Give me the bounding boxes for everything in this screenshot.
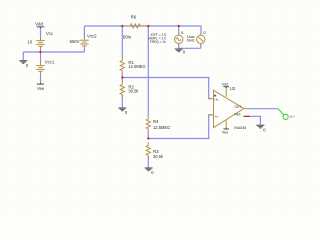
resistor R3 xyxy=(146,142,150,158)
power symbol Vee left xyxy=(37,83,44,84)
svg-text:-In: -In xyxy=(214,115,218,119)
voltage probe marker xyxy=(278,109,288,120)
resistor R4 xyxy=(146,116,150,131)
wire R2 bottom stub xyxy=(121,95,123,107)
wire R1 bottom to node B xyxy=(121,73,123,77)
wire node A to Vcc1 xyxy=(40,52,42,61)
svg-text:R4: R4 xyxy=(153,119,159,124)
voltage source Vcc2 xyxy=(80,37,89,49)
current source I1 xyxy=(175,33,183,45)
power symbol Vdd left xyxy=(37,27,44,28)
wire I1 top stub xyxy=(178,26,180,34)
power symbol Vdd op-amp xyxy=(223,87,229,88)
svg-text:OUT: OUT xyxy=(235,105,242,109)
node B junction xyxy=(121,76,123,78)
svg-text:I2: I2 xyxy=(203,31,206,35)
svg-text:12.5MEG: 12.5MEG xyxy=(128,64,145,69)
wire I1 bottom stub xyxy=(178,44,180,48)
wire output xyxy=(249,108,279,110)
wire I2 top stub xyxy=(200,26,202,34)
wire column R4 top xyxy=(147,26,149,116)
wire Vcc1 to Vee xyxy=(40,75,42,84)
svg-text:Vdd: Vdd xyxy=(35,21,43,26)
svg-text:Vee: Vee xyxy=(37,86,45,91)
wire Vcc2 bottom vertical xyxy=(83,49,85,52)
svg-text:Vcc: Vcc xyxy=(46,31,54,36)
svg-text:INA545: INA545 xyxy=(234,126,246,130)
svg-text:10: 10 xyxy=(27,39,32,44)
voltage source Vcc1 xyxy=(36,61,45,75)
svg-text:Vee: Vee xyxy=(222,131,228,135)
svg-text:30.5k: 30.5k xyxy=(153,154,164,159)
junction top R4 column xyxy=(147,25,149,27)
current source I2 xyxy=(197,33,205,45)
svg-text:660V: 660V xyxy=(70,39,80,44)
wire REF to ground xyxy=(250,116,261,125)
svg-text:12.5MEG: 12.5MEG xyxy=(153,125,170,130)
wire node B to R2 xyxy=(121,78,123,82)
pin + xyxy=(214,95,216,97)
svg-text:Vdd: Vdd xyxy=(222,82,228,86)
REF pin stub xyxy=(244,115,250,117)
ground 0 under R3 xyxy=(145,168,153,171)
wire source bottom rail xyxy=(179,47,201,49)
svg-text:Vcc1: Vcc1 xyxy=(45,59,55,64)
ground 0 left xyxy=(19,61,27,64)
svg-text:30.5k: 30.5k xyxy=(128,88,139,93)
node C junction xyxy=(147,137,149,139)
value 1Aac 0Adc xyxy=(187,35,195,42)
wire ground stub left xyxy=(22,52,24,60)
wire Vcc to node A xyxy=(40,50,42,52)
svg-text:Vcc2: Vcc2 xyxy=(87,33,97,38)
junction top I1 column xyxy=(178,25,180,27)
ground 0 under I1 xyxy=(175,49,183,52)
wire Vdd to Vcc xyxy=(40,28,42,37)
svg-text:0Adc: 0Adc xyxy=(187,39,195,43)
svg-text:I1: I1 xyxy=(181,31,184,35)
ground 0 under R2 xyxy=(118,108,126,111)
wire R3 bottom stub xyxy=(147,156,149,168)
wire top rail xyxy=(84,25,201,27)
junction top R1 column xyxy=(121,25,123,27)
wire I2 bottom stub xyxy=(200,44,202,48)
svg-text:FREQ = 1k: FREQ = 1k xyxy=(150,40,166,44)
resistor R1 xyxy=(120,57,124,73)
op-amp U2 xyxy=(209,88,250,129)
svg-text:REF: REF xyxy=(235,112,241,116)
wire R4 bottom to node C xyxy=(147,130,149,139)
wire inverting input xyxy=(148,115,211,139)
voltage source Vcc xyxy=(36,36,45,50)
wire Vcc2 top vertical xyxy=(83,26,85,38)
resistor R2 xyxy=(120,81,124,98)
svg-text:+In: +In xyxy=(214,98,219,102)
node A junction xyxy=(39,51,41,53)
power symbol Vee op-amp xyxy=(223,128,229,129)
wire column R1 top xyxy=(121,26,123,58)
value IOFF IAMPL FREQ xyxy=(148,33,166,44)
wire left rail xyxy=(23,51,84,53)
svg-text:U2: U2 xyxy=(230,86,236,91)
svg-text:50m: 50m xyxy=(123,34,132,39)
ground 0 REF xyxy=(256,125,264,128)
resistor R6 xyxy=(126,24,148,28)
svg-text:R6: R6 xyxy=(131,15,137,20)
wire noninverting input xyxy=(122,78,211,99)
